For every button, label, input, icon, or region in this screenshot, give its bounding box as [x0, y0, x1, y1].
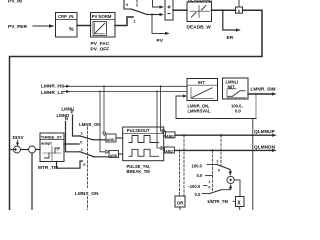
- switch arm 100.0: [217, 165, 230, 170]
- wire LMNDN down to switch2: [66, 122, 81, 152]
- wire LMNR_HS down to left AND negated input: [103, 86, 105, 132]
- node PV: [157, 38, 164, 44]
- block LMNLIMIT: [223, 78, 249, 99]
- wire AND1 to PULSEOUT: [116, 137, 123, 139]
- dashed control QLMNUP to OR: [183, 135, 185, 196]
- summer circle 3: [227, 176, 234, 183]
- svg-text:BREAK_TM: BREAK_TM: [127, 169, 151, 174]
- svg-text:QLMNDN: QLMNDN: [254, 145, 276, 151]
- svg-text:DEADB_W: DEADB_W: [187, 24, 212, 30]
- wire switch to subtractor minus input: [147, 13, 164, 16]
- node LMNUP: [62, 106, 75, 114]
- svg-text:PV: PV: [157, 38, 164, 44]
- wire PV_NORM up to switch input 1: [115, 17, 133, 26]
- node LMNS_ON (upper label): [79, 122, 100, 127]
- svg-text:x: x: [238, 8, 241, 13]
- node LMNDN: [57, 113, 70, 121]
- wire GAIN input from top: [238, 0, 240, 7]
- svg-text:1: 1: [134, 20, 136, 24]
- summer circle 2: [29, 146, 36, 153]
- wire LMNR_SIM output arrow: [248, 92, 277, 95]
- dashed control QLMNDN to OR: [179, 150, 181, 196]
- wire PV tap with arrow: [152, 15, 170, 36]
- wire OR output down: [179, 207, 181, 210]
- svg-text:PV_FAC: PV_FAC: [91, 41, 110, 47]
- wire LMNR_LS down to right AND2 negated input: [157, 92, 161, 149]
- wire LMNR_LS with arrow: [63, 90, 187, 93]
- svg-text:DISV: DISV: [13, 135, 25, 141]
- wire 100.0 to switch: [207, 164, 217, 166]
- wire QLMNDN output: [174, 149, 276, 152]
- svg-text:1: 1: [208, 180, 210, 184]
- svg-text:AND: AND: [165, 150, 173, 154]
- svg-text:MTR_TM: MTR_TM: [38, 165, 58, 171]
- svg-text:LMNR_SIM: LMNR_SIM: [251, 87, 276, 93]
- svg-text:INT: INT: [198, 80, 205, 85]
- svg-text:PV_OFF: PV_OFF: [91, 47, 110, 53]
- gate AND1 right (negated LMNR_HS blocking): [162, 129, 175, 138]
- block PV_NORM: [91, 13, 116, 38]
- node QLMNUP: [254, 129, 276, 135]
- switch LMNS_ON upper arm: [81, 131, 83, 135]
- junction ER: [222, 9, 224, 11]
- wire down right side: [252, 119, 254, 211]
- wire label dash to X: [233, 200, 236, 202]
- wire feedback loop into INT: [176, 94, 256, 118]
- svg-text:adapt: adapt: [41, 141, 52, 146]
- node LMNR_LS: [41, 90, 64, 96]
- svg-text:THREE_ST: THREE_ST: [41, 134, 62, 139]
- node LMNR_SIM: [251, 87, 276, 93]
- value label DEADB_W: [187, 24, 212, 30]
- wire SP_INT from top to subtractor plus input: [153, 0, 165, 9]
- dashed control QLMNDN to -100.0 switch: [211, 150, 213, 192]
- value labels PULSE_TM / BREAK_TM: [127, 164, 151, 174]
- dashed control PVPER_ON: [136, 0, 138, 8]
- block DEADBAND (title cut off at top): [188, 0, 212, 3]
- wire PULSEOUT to AND2 right: [163, 149, 166, 151]
- wire PV_IN down to switch input 0: [124, 0, 131, 9]
- junction on LMNR_HS for right AND: [160, 85, 162, 87]
- value label MTR_TM: [38, 165, 58, 171]
- svg-text:100.0: 100.0: [192, 164, 203, 169]
- wire switch2 to AND2: [94, 156, 109, 158]
- svg-text:PV_IN: PV_IN: [8, 0, 22, 4]
- value labels PV_FAC / PV_OFF: [91, 41, 110, 53]
- junction QLMNUP to 100.0 switch: [220, 134, 222, 136]
- junction on LMNR_LS for right AND: [156, 91, 158, 93]
- wire CRP_IN to PV_NORM: [77, 25, 91, 27]
- node ER: [227, 35, 234, 41]
- svg-text:LMNR_LS: LMNR_LS: [41, 90, 64, 96]
- svg-text:AND: AND: [107, 138, 115, 142]
- wire PV_PER to CRP_IN with arrow: [33, 24, 55, 27]
- node DISV: [13, 135, 25, 141]
- wire gain output routed right, down and across to left, down to summer: [10, 10, 263, 210]
- node PV_IN (cut off at top): [8, 0, 22, 4]
- svg-text:ER: ER: [227, 35, 234, 41]
- value label 0.0 lower: [195, 192, 201, 197]
- subtractor (SP-PV): [165, 0, 173, 20]
- svg-text:PV NORM: PV NORM: [92, 14, 112, 19]
- multiplier GAIN: [236, 7, 243, 13]
- wire AND2 to PULSEOUT: [119, 153, 123, 155]
- svg-text:0.0: 0.0: [197, 173, 203, 178]
- switch arm -100.0: [210, 190, 222, 194]
- value label 1/MTR_TM: [207, 199, 228, 204]
- block CRP_IN: [56, 13, 78, 38]
- wire PULSEOUT to AND1 right: [164, 135, 166, 137]
- wire summer2 to THREE_ST: [36, 149, 41, 151]
- svg-text:0.0: 0.0: [195, 192, 201, 197]
- dashed control LMNS_ON: [86, 127, 88, 188]
- junction LMNR_SIM: [255, 93, 257, 95]
- gate AND1 left (negated LMNR_HS): [103, 132, 116, 142]
- block PULSEOUT: [123, 127, 164, 161]
- wire summer2 down (LMNR feedback, cut off): [31, 153, 33, 210]
- wire switch1 to AND1: [93, 139, 106, 141]
- svg-text:CRP_IN: CRP_IN: [58, 14, 73, 19]
- wire -100.0 stub: [204, 185, 208, 187]
- wire subtractor to deadband: [173, 9, 187, 11]
- wire DISV arrow into summer: [16, 140, 19, 146]
- node QLMNDN: [254, 145, 276, 151]
- svg-text:PV_PER: PV_PER: [8, 24, 27, 30]
- wire 0.0 to switch: [202, 193, 210, 195]
- dashed control LMNS_ON from below: [86, 197, 88, 211]
- wire LMNUP down to switch1: [73, 115, 81, 136]
- svg-text:-100.0: -100.0: [188, 184, 201, 189]
- svg-text:0: 0: [126, 3, 128, 7]
- wire summer1 to summer2: [21, 149, 29, 151]
- wire LMNR_SIM tap down: [255, 94, 257, 119]
- svg-text:P: P: [71, 109, 74, 114]
- wire summer3 to X multiplier: [234, 180, 240, 197]
- wire LMNR_HS down to right AND negated input: [161, 86, 163, 131]
- svg-text:LMNRSVAL: LMNRSVAL: [188, 109, 211, 114]
- svg-text:0: 0: [83, 163, 85, 167]
- dashed control QLMNUP to 100.0 switch: [220, 135, 222, 166]
- gate AND2 right (negated LMNR_LS blocking): [161, 146, 174, 153]
- svg-text:1: 1: [216, 159, 218, 163]
- wire ER route into summer: [10, 149, 14, 151]
- wire THREE_ST down output to switch2 0 input: [57, 161, 83, 168]
- svg-text:1: 1: [81, 131, 83, 135]
- block THREE_ST (three step element): [40, 133, 64, 162]
- svg-text:X: X: [237, 200, 241, 206]
- multiplier X (1/MTR_TM): [236, 197, 245, 207]
- wire 0.0 stub: [206, 175, 213, 177]
- value label 0.0: [197, 173, 203, 178]
- wire deadband to gain: [212, 9, 236, 11]
- svg-text:LMNS_ON: LMNS_ON: [79, 122, 100, 127]
- junction QLMNDN to -100.0 switch: [211, 149, 213, 151]
- svg-text:LMNS_ON: LMNS_ON: [75, 191, 99, 197]
- block INT (integrator): [187, 79, 218, 101]
- switch PVPER_ON arm: [131, 9, 147, 15]
- svg-text:0: 0: [208, 185, 210, 189]
- svg-text:0: 0: [218, 168, 220, 172]
- svg-text:0.0: 0.0: [235, 109, 241, 114]
- junction on LMNR_HS for left AND: [103, 85, 105, 87]
- wire X output down: [239, 207, 241, 211]
- gate AND2 left (negated LMNR_LS): [106, 150, 119, 158]
- svg-text:OR: OR: [177, 201, 185, 206]
- value label 100.0: [192, 164, 203, 169]
- svg-text:1/MTR_TM: 1/MTR_TM: [207, 199, 228, 204]
- wire ER tap with arrow: [223, 10, 241, 31]
- gate OR: [175, 196, 185, 207]
- junction QLMNDN to OR: [179, 149, 181, 151]
- node LMNR_HS: [41, 84, 65, 90]
- value labels LMNR_ON / LMNRS_VAL: [188, 104, 211, 114]
- wire lower switch into summer3 with up arrow: [221, 184, 232, 190]
- svg-text:%: %: [69, 27, 74, 33]
- junction on LMNR_LS for left AND: [99, 91, 101, 93]
- junction QLMNUP to OR: [183, 134, 185, 136]
- node LMNS_ON (lower label): [75, 191, 99, 197]
- wire upper switch into summer3 with down arrow: [229, 170, 232, 176]
- svg-text:N: N: [65, 116, 68, 121]
- junction PV: [151, 14, 153, 16]
- wire QLMNUP output: [175, 134, 277, 137]
- value label -100.0: [188, 184, 201, 189]
- svg-text:0: 0: [80, 141, 82, 145]
- value labels 100.0 / 0.0: [231, 104, 243, 114]
- svg-text:LMNR_HS: LMNR_HS: [41, 84, 65, 90]
- svg-text:AND: AND: [166, 134, 174, 138]
- wire THREE_ST up output to switch 0 input: [64, 143, 79, 145]
- summer circle 1: [14, 146, 21, 153]
- svg-text:PULSEOUT: PULSEOUT: [127, 128, 150, 133]
- switch LMNS_ON lower arm: [81, 148, 83, 152]
- svg-text:AND: AND: [110, 154, 118, 158]
- svg-text:QLMNUP: QLMNUP: [254, 129, 276, 135]
- wire LMNR_HS with arrow: [63, 85, 187, 88]
- node PV_PER: [8, 24, 27, 30]
- wire LMNR_LS down to left AND2 negated input: [100, 92, 106, 152]
